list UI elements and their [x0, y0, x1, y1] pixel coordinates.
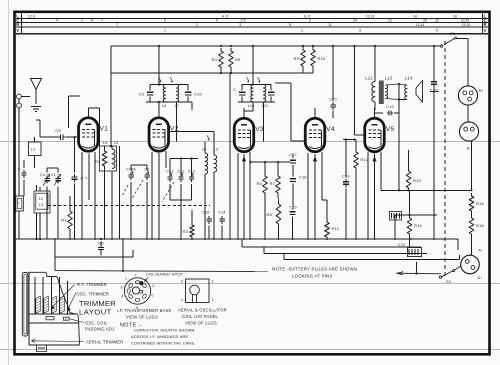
svg-text:22: 22 — [435, 19, 439, 23]
svg-text:5: 5 — [436, 29, 438, 33]
svg-text:C5: C5 — [55, 128, 61, 133]
svg-text:L4: L4 — [103, 141, 108, 145]
svg-text:VIEW OF LUGS: VIEW OF LUGS — [126, 315, 158, 320]
svg-text:1: 1 — [81, 19, 83, 23]
svg-text:V: V — [484, 28, 487, 33]
svg-text:R9: R9 — [293, 56, 299, 61]
svg-text:V5: V5 — [386, 126, 395, 133]
svg-text:R11: R11 — [332, 226, 340, 231]
svg-text:C23: C23 — [398, 243, 405, 247]
svg-text:R7: R7 — [270, 181, 276, 186]
svg-text:21: 21 — [388, 19, 392, 23]
svg-text:LAYOUT: LAYOUT — [79, 308, 112, 317]
svg-text:7: 7 — [101, 19, 103, 23]
svg-text:R6: R6 — [256, 181, 262, 186]
svg-text:6, 9: 6, 9 — [304, 14, 310, 18]
svg-text:R5: R5 — [235, 57, 241, 62]
svg-text:4: 4 — [56, 19, 58, 23]
svg-text:6: 6 — [151, 294, 153, 298]
svg-text:A+: A+ — [478, 276, 484, 280]
svg-text:C14: C14 — [218, 211, 225, 215]
svg-text:L12: L12 — [365, 76, 373, 81]
svg-text:L: L — [18, 201, 20, 205]
svg-text:AERIAL & OSCILLATOR: AERIAL & OSCILLATOR — [178, 308, 227, 313]
svg-text:C10: C10 — [194, 92, 203, 97]
svg-text:OSC. TRIMMER: OSC. TRIMMER — [77, 292, 110, 297]
svg-text:L13: L13 — [385, 76, 393, 81]
svg-text:C19: C19 — [386, 105, 394, 109]
svg-text:L2: L2 — [39, 197, 44, 201]
svg-text:OSC. COIL: OSC. COIL — [85, 321, 108, 326]
svg-text:L1: L1 — [31, 148, 36, 152]
svg-text:R3: R3 — [182, 229, 188, 234]
svg-text:3: 3 — [239, 23, 241, 27]
svg-text:CAPACITIVE SHUNTS SHOWN: CAPACITIVE SHUNTS SHOWN — [134, 328, 195, 333]
svg-text:8: 8 — [289, 23, 291, 27]
svg-text:5: 5 — [91, 19, 93, 23]
svg-text:A-: A- — [479, 249, 484, 253]
svg-text:L8: L8 — [202, 148, 206, 152]
svg-text:24: 24 — [353, 19, 357, 23]
svg-text:C15: C15 — [202, 211, 209, 215]
svg-text:L5: L5 — [114, 141, 119, 145]
svg-text:L3: L3 — [39, 203, 44, 207]
svg-text:14: 14 — [413, 14, 417, 18]
svg-text:C9: C9 — [138, 92, 144, 97]
svg-text:COIL LUG PANEL: COIL LUG PANEL — [182, 314, 219, 319]
svg-text:C: C — [233, 88, 236, 92]
svg-text:R13: R13 — [413, 178, 422, 183]
svg-text:6: 6 — [164, 19, 166, 23]
svg-text:C1: C1 — [51, 173, 56, 177]
svg-text:C4: C4 — [40, 173, 45, 177]
svg-text:4: 4 — [181, 298, 183, 302]
svg-text:9: 9 — [216, 19, 218, 23]
svg-text:3: 3 — [309, 19, 311, 23]
svg-text:LOOKING AT PINS: LOOKING AT PINS — [292, 274, 333, 279]
svg-text:V: V — [16, 28, 19, 33]
svg-text:C: C — [18, 167, 21, 171]
svg-text:2: 2 — [152, 284, 154, 288]
svg-text:COLOURED SPOT: COLOURED SPOT — [146, 272, 184, 277]
svg-text:S1: S1 — [446, 279, 452, 284]
svg-text:L14: L14 — [405, 76, 413, 81]
svg-text:L6: L6 — [162, 104, 166, 108]
svg-text:13,14: 13,14 — [416, 23, 425, 27]
svg-text:2: 2 — [212, 280, 214, 284]
svg-text:10: 10 — [453, 14, 457, 18]
svg-text:CONTAINED WITHIN THE CANS.: CONTAINED WITHIN THE CANS. — [131, 341, 196, 346]
svg-text:AERIAL TRIMMER: AERIAL TRIMMER — [86, 340, 123, 345]
svg-text:L7: L7 — [175, 104, 179, 108]
svg-text:V4: V4 — [326, 126, 335, 133]
svg-text:2: 2 — [196, 23, 198, 27]
svg-text:I.F. TRANSFORMER BASE: I.F. TRANSFORMER BASE — [117, 308, 171, 313]
svg-text:R14: R14 — [414, 223, 423, 228]
svg-text:3: 3 — [359, 29, 361, 33]
svg-text:V3: V3 — [255, 126, 264, 133]
svg-text:L11: L11 — [262, 104, 268, 108]
svg-text:B+: B+ — [479, 89, 485, 93]
svg-text:C18: C18 — [299, 176, 307, 180]
svg-text:R.F. TRIMMER: R.F. TRIMMER — [77, 282, 107, 287]
svg-text:C: C — [65, 318, 67, 321]
svg-text:PADDING ADJ.: PADDING ADJ. — [85, 327, 116, 332]
svg-text:V1: V1 — [100, 126, 109, 133]
svg-text:R1: R1 — [61, 218, 67, 223]
svg-text:R2: R2 — [95, 159, 101, 164]
svg-text:ACROSS I.F. WINDINGS ARE: ACROSS I.F. WINDINGS ARE — [131, 334, 189, 339]
svg-text:NOTE -: NOTE - — [272, 267, 289, 272]
svg-text:2: 2 — [301, 29, 303, 33]
svg-text:S1: S1 — [450, 31, 456, 36]
svg-text:25: 25 — [423, 19, 427, 23]
svg-text:C16: C16 — [289, 206, 297, 210]
svg-text:1: 1 — [125, 277, 127, 281]
svg-text:4: 4 — [121, 295, 123, 299]
svg-text:10,19: 10,19 — [461, 19, 470, 23]
svg-text:15,16: 15,16 — [462, 23, 471, 27]
svg-text:3: 3 — [181, 280, 183, 284]
svg-text:BATTERY PLUGS ARE SHOWN: BATTERY PLUGS ARE SHOWN — [289, 267, 357, 272]
svg-text:R8: R8 — [266, 212, 272, 217]
svg-text:R10: R10 — [318, 56, 327, 61]
svg-text:2 9: 2 9 — [241, 19, 246, 23]
svg-text:11: 11 — [328, 23, 332, 27]
svg-text:4, 5: 4, 5 — [222, 14, 228, 18]
svg-text:VIEW OF LUGS: VIEW OF LUGS — [185, 321, 217, 326]
svg-text:7: 7 — [134, 274, 136, 278]
svg-text:R4: R4 — [211, 57, 217, 62]
svg-text:12,13: 12,13 — [366, 14, 375, 18]
svg-text:3: 3 — [120, 286, 122, 290]
svg-text:C6: C6 — [98, 241, 104, 246]
svg-text:1,2,3: 1,2,3 — [27, 14, 35, 18]
svg-text:1: 1 — [212, 298, 214, 302]
svg-text:1: 1 — [164, 29, 166, 33]
svg-text:7: 7 — [116, 23, 118, 27]
svg-text:R16: R16 — [476, 223, 485, 228]
svg-text:R15: R15 — [476, 201, 485, 206]
